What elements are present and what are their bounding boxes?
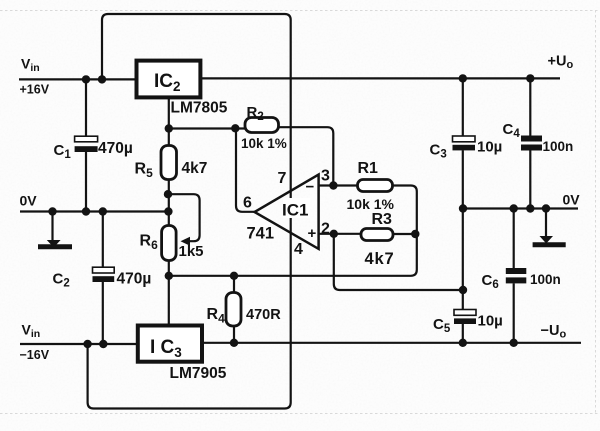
wire +Uo output rail	[200, 77, 560, 79]
wire ground stub left	[51, 212, 53, 241]
node R1/R3 right	[411, 230, 419, 238]
wire C1 leads	[85, 79, 87, 136]
svg-text:LM7805: LM7805	[171, 100, 228, 117]
node -Uo C5	[459, 339, 467, 347]
node loop/+16V	[98, 75, 106, 83]
node 0V C2	[99, 207, 107, 215]
capacitor C6 plates	[506, 268, 527, 274]
node 0V C3	[459, 204, 467, 212]
wire C4 leads	[529, 78, 531, 135]
node +Uo C3	[459, 74, 467, 82]
wire R6 to IC3 common pin	[168, 261, 170, 326]
capacitor C5 plates (electrolytic)	[454, 310, 476, 316]
svg-text:100n: 100n	[530, 272, 561, 287]
node -16V loop	[83, 340, 91, 348]
wire pin 2 node down to 0V column	[334, 234, 463, 290]
svg-text:4k7: 4k7	[182, 160, 208, 177]
node R4 top	[230, 272, 238, 280]
resistor R2 body	[245, 118, 279, 133]
wire R4 bottom lead	[233, 326, 235, 343]
wire -16V input rail	[20, 343, 138, 345]
wire R2 right to op-amp pin 3	[279, 127, 334, 185]
svg-text:4k7: 4k7	[365, 250, 395, 268]
svg-text:+: +	[308, 225, 317, 242]
wire C5 leads (with op-amp tap node)	[462, 209, 464, 310]
node 0V C4	[526, 204, 534, 212]
capacitor C2 plates (electrolytic)	[93, 267, 115, 273]
node op-amp out / R2 left	[231, 124, 239, 132]
wire +16V input rail	[19, 78, 137, 80]
svg-text:10k 1%: 10k 1%	[241, 136, 287, 151]
regulator IC3 box	[138, 326, 202, 362]
node C1/+16V	[82, 75, 90, 83]
svg-text:470µ: 470µ	[117, 271, 152, 288]
svg-text:2: 2	[321, 221, 330, 238]
node 0V ground right	[542, 204, 550, 212]
wire ground stub right	[545, 209, 547, 238]
svg-text:0V: 0V	[20, 193, 38, 209]
svg-text:+16V: +16V	[20, 83, 50, 97]
resistor R3 body	[361, 229, 393, 241]
node IC2 common / R2	[165, 124, 173, 132]
svg-text:7: 7	[278, 170, 287, 187]
node -Uo C6	[510, 339, 518, 347]
resistor R6 body (trimmer)	[162, 226, 177, 261]
wire pin 3 stub to R1 left	[319, 184, 358, 186]
svg-text:−16V: −16V	[20, 348, 50, 362]
svg-text:470µ: 470µ	[98, 140, 133, 157]
svg-text:470R: 470R	[246, 307, 281, 323]
regulator IC2 box	[137, 61, 201, 98]
svg-text:4: 4	[294, 241, 303, 258]
capacitor C4 plates	[521, 136, 542, 142]
node pin 2	[330, 230, 338, 238]
svg-text:10µ: 10µ	[477, 139, 502, 156]
mask for IC1 label over supply line	[283, 198, 310, 218]
wire R1 right bend down to R3 right node and to divider line	[169, 186, 417, 276]
node +Uo C4	[526, 74, 534, 82]
op-amp U1 triangle	[255, 175, 319, 249]
svg-text:−: −	[306, 179, 315, 196]
svg-text:10k 1%: 10k 1%	[347, 196, 395, 212]
wire R5 to R6 (through wiper tap and 0V node)	[168, 180, 170, 226]
resistor R6 wiper arrowhead	[181, 237, 191, 246]
svg-text:100n: 100n	[543, 139, 574, 154]
node -16V C2	[99, 340, 107, 348]
node R4 bottom	[230, 339, 238, 347]
wire 0V right rail	[463, 207, 578, 209]
resistor R1 body	[358, 180, 393, 192]
wire R6 wiper loop	[168, 194, 200, 241]
node 0V C1	[82, 207, 90, 215]
wire R3 right to right-node vertical	[393, 233, 417, 235]
wire IC2-common node to R2 left	[169, 127, 245, 129]
svg-text:IC1: IC1	[282, 201, 308, 220]
wire C6 leads	[513, 209, 515, 269]
node 0V C6	[510, 204, 518, 212]
ground symbol left	[47, 240, 61, 248]
svg-text:3: 3	[321, 168, 330, 185]
svg-text:0V: 0V	[563, 192, 581, 208]
node 0V / divider	[164, 207, 172, 215]
node 0V column tap	[459, 286, 467, 294]
wire op-amp pin 6 output loop up to R2 left node	[236, 129, 255, 212]
node divider line left	[165, 272, 173, 280]
svg-text:10µ: 10µ	[478, 313, 503, 330]
svg-text:LM7905: LM7905	[170, 365, 227, 382]
svg-text:R3: R3	[372, 211, 393, 228]
capacitor C3 plates (electrolytic)	[453, 136, 476, 142]
svg-text:6: 6	[243, 195, 252, 212]
wire C2 leads	[102, 212, 104, 268]
node 0V ground left	[48, 207, 56, 215]
wire IC2 common pin to R5	[168, 97, 170, 145]
resistor R5 body	[161, 146, 177, 180]
svg-text:1k5: 1k5	[179, 243, 204, 260]
wire R4 top lead	[233, 276, 235, 293]
wire 0V left rail	[20, 210, 169, 212]
wire -Uo output rail	[202, 342, 581, 344]
resistor R4 body	[226, 293, 241, 327]
svg-text:741: 741	[247, 225, 275, 243]
node R5/R6 wiper	[164, 190, 172, 198]
svg-text:R1: R1	[358, 160, 379, 177]
wire C3 leads	[462, 78, 464, 136]
wire pin 2 stub to R3 left	[319, 233, 361, 235]
capacitor C1 plates (electrolytic)	[75, 136, 98, 142]
wire supply loop (top, pin7 vertical, bottom loop to -16V)	[88, 14, 291, 409]
node pin 3	[329, 181, 337, 189]
ground symbol right	[540, 236, 554, 244]
